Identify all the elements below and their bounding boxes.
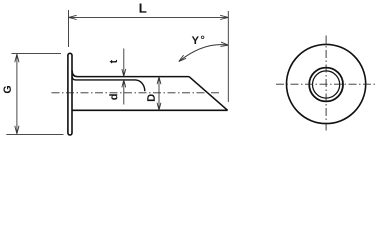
- label d: [109, 94, 117, 100]
- end view shank circle: [309, 68, 343, 102]
- G top arrow: [15, 54, 19, 62]
- G bottom arrow: [15, 126, 19, 134]
- L dimension line: [69, 16, 229, 18]
- shank bottom edge: [72, 109, 228, 111]
- label t: [110, 60, 117, 63]
- hole inner wall line with bottom arc: [72, 77, 145, 91]
- L extension line right: [227, 11, 229, 102]
- G extension line top: [12, 52, 62, 54]
- shank top edge with fillet into head: [72, 71, 189, 77]
- arc left arrowhead: [179, 55, 186, 61]
- arc right arrowhead: [221, 42, 229, 46]
- L right arrow: [220, 15, 228, 19]
- end view hole circle: [313, 71, 340, 98]
- end view vertical centerline: [325, 36, 327, 131]
- angle arc for Y: [179, 45, 229, 62]
- label degree-symbol: [201, 36, 204, 39]
- D dimension line: [158, 77, 160, 110]
- G extension line bottom: [6, 133, 63, 135]
- D up arrow: [157, 77, 161, 84]
- centerline of side view: [52, 92, 220, 94]
- label Y: [192, 36, 199, 44]
- t dimension upper arrow line: [122, 49, 126, 77]
- D down arrow: [157, 103, 161, 110]
- label D: [147, 94, 155, 101]
- chamfer diagonal at tip: [189, 77, 228, 111]
- end view outer circle (head): [287, 44, 366, 123]
- G dimension line: [16, 54, 18, 134]
- label L: [140, 4, 147, 13]
- t/d dimension lower line with up arrow: [122, 80, 126, 105]
- L extension line left: [68, 10, 70, 47]
- label G: [3, 86, 10, 93]
- L left arrow: [69, 15, 77, 19]
- end view horizontal centerline: [276, 83, 376, 85]
- rivet head (side view): [68, 53, 72, 135]
